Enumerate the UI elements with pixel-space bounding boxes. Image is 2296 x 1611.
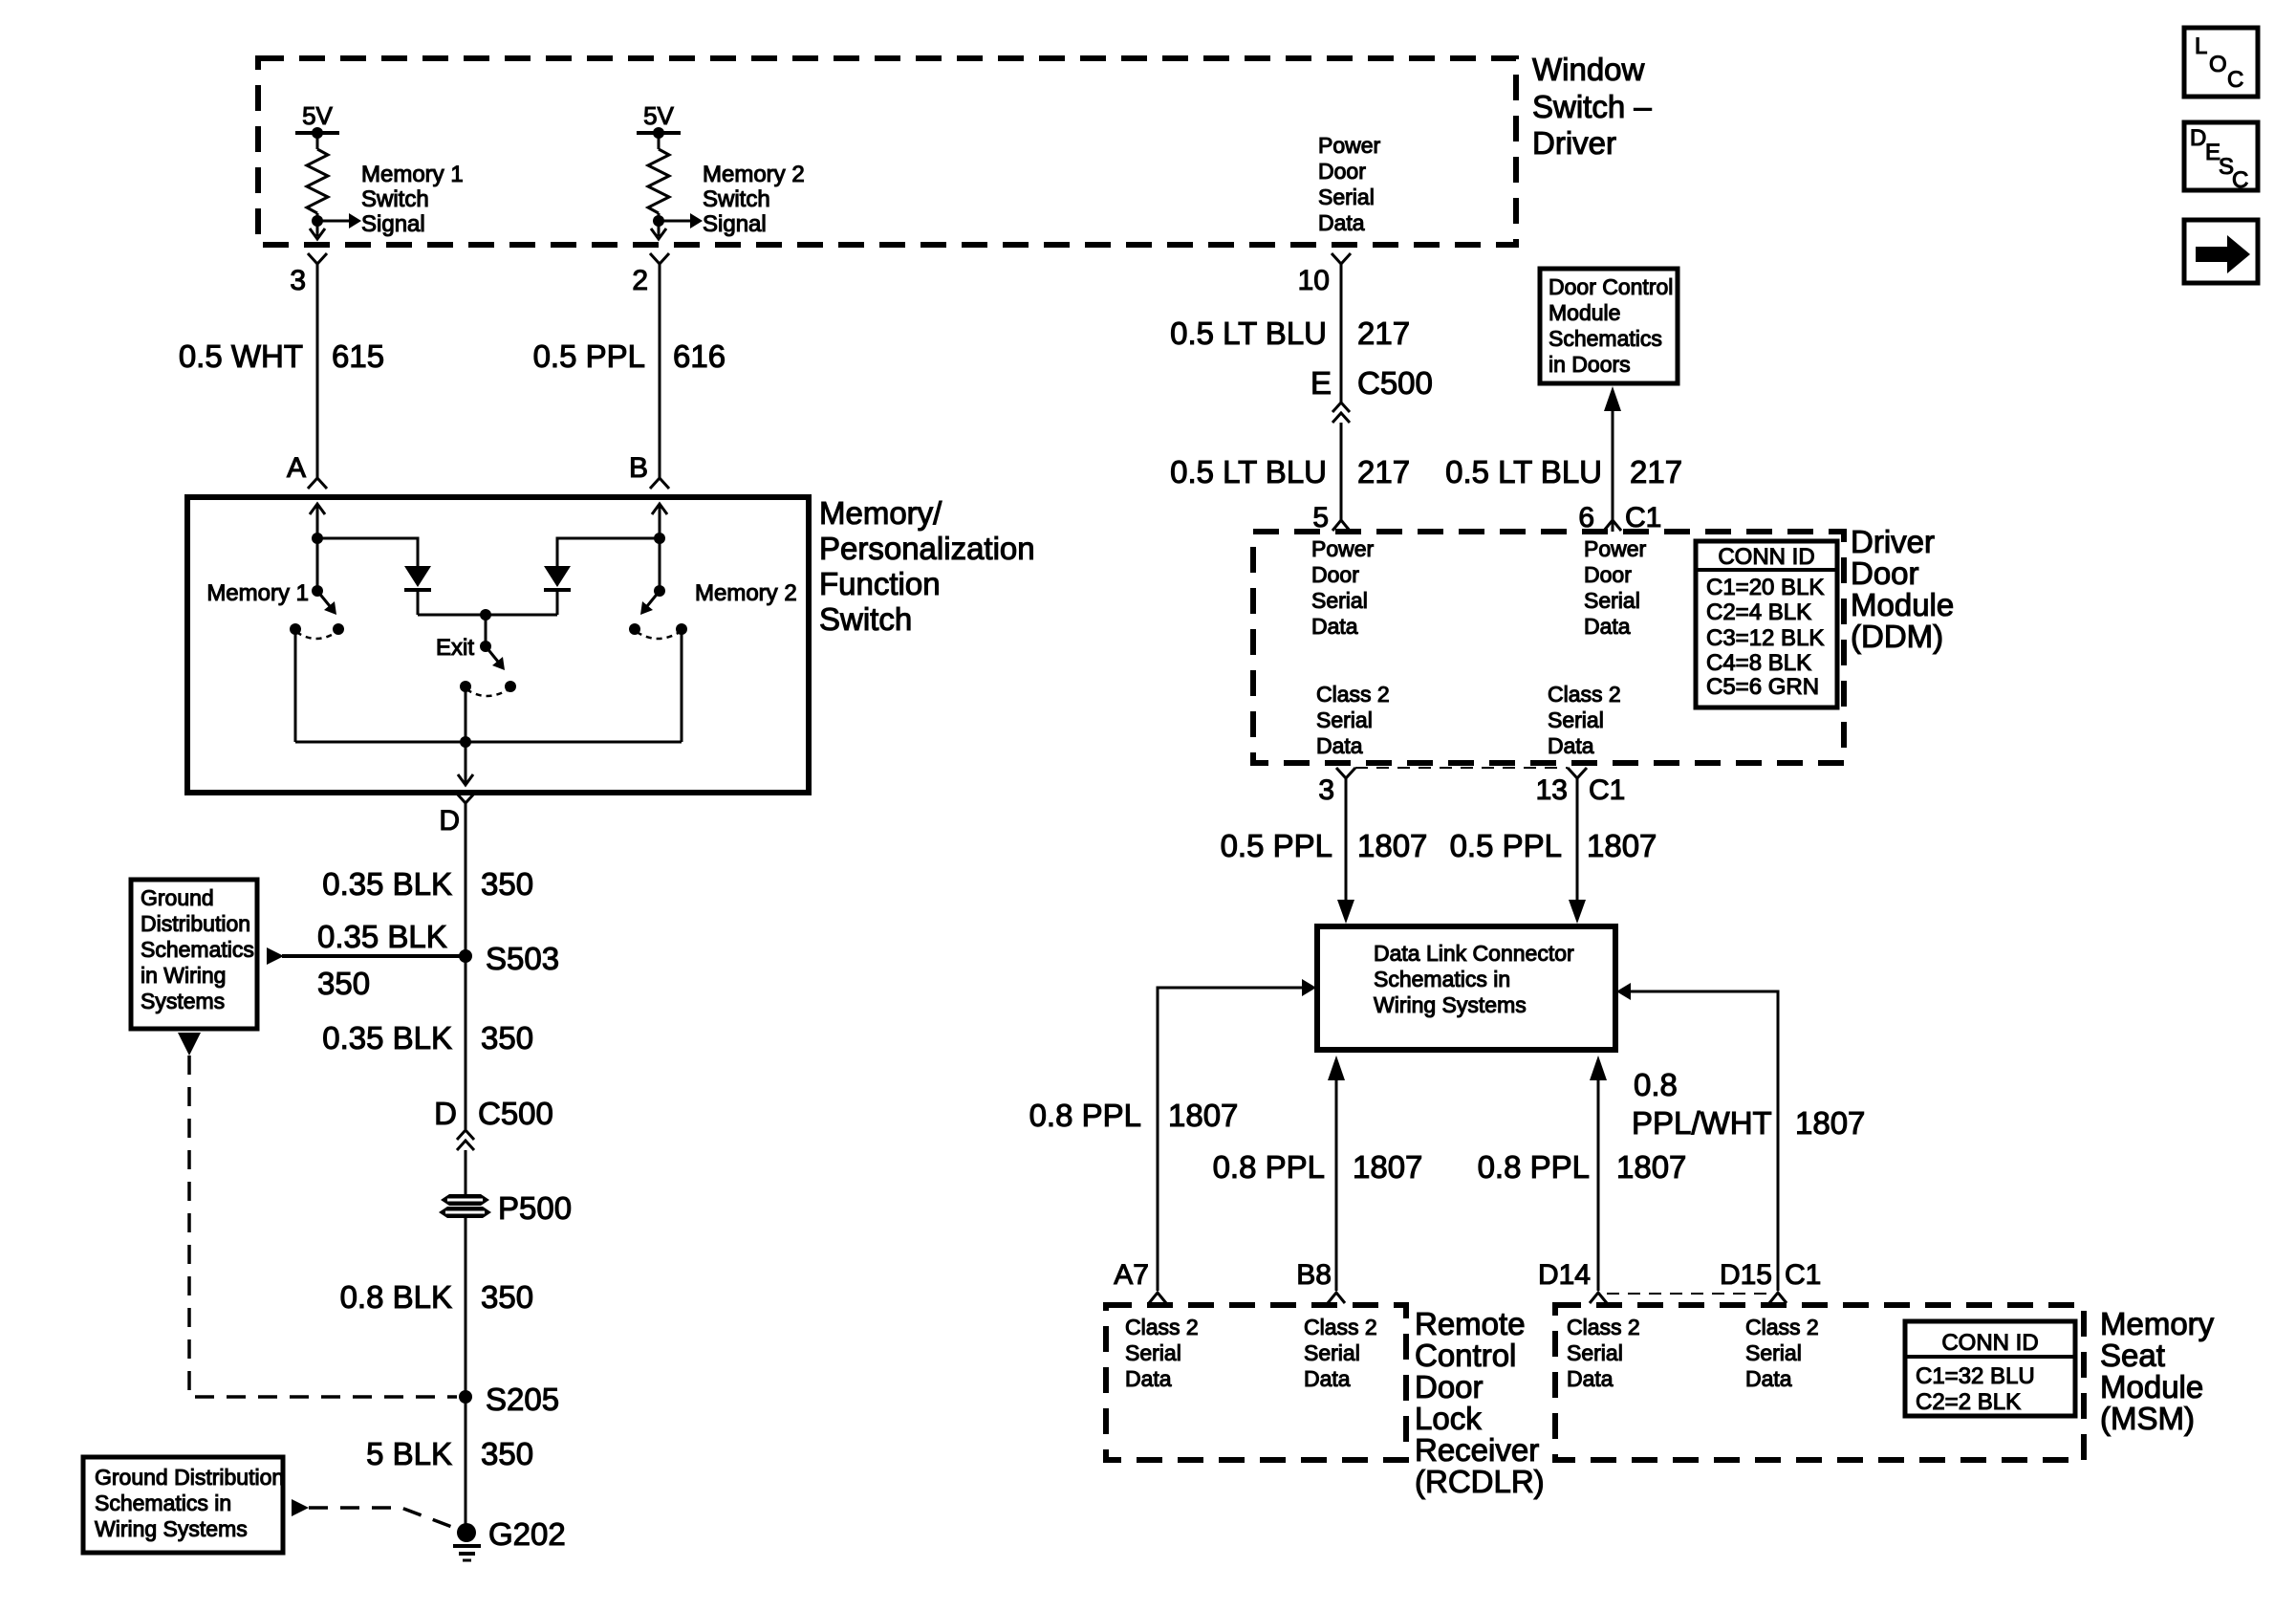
label: Power Door Serial Data (DDM right) xyxy=(1584,536,1647,639)
svg-text:0.8 PPL: 0.8 PPL xyxy=(1478,1149,1590,1185)
svg-text:C2=2 BLK: C2=2 BLK xyxy=(1916,1389,2021,1415)
wire B inside switch (arrow up) xyxy=(652,504,667,591)
svg-text:Power: Power xyxy=(1584,536,1647,561)
svg-text:Door: Door xyxy=(1415,1369,1484,1404)
svg-text:Module: Module xyxy=(1549,300,1620,325)
svg-text:C2=4 BLK: C2=4 BLK xyxy=(1706,599,1811,625)
svg-text:Schematics: Schematics xyxy=(1549,326,1662,351)
icon box: right arrow xyxy=(2184,220,2258,283)
svg-text:Exit: Exit xyxy=(436,635,474,661)
svg-text:3: 3 xyxy=(1318,774,1334,806)
svg-text:D14: D14 xyxy=(1538,1259,1591,1291)
svg-text:0.5 LT BLU: 0.5 LT BLU xyxy=(1445,454,1602,490)
label: Class 2 Serial Data (DDM right) xyxy=(1548,682,1621,758)
svg-text:A: A xyxy=(287,452,306,484)
svg-text:Door: Door xyxy=(1311,562,1359,587)
svg-text:Class 2: Class 2 xyxy=(1304,1315,1377,1339)
ground G202 xyxy=(453,1523,481,1560)
label: pin E / connector C500 xyxy=(1310,365,1433,401)
svg-text:Class 2: Class 2 xyxy=(1316,682,1390,707)
wire 1807 (0.8 PPL) D14 to DLC (arrow up) xyxy=(1590,1056,1607,1291)
label: Class 2 Serial Data (MSM right) xyxy=(1745,1315,1819,1391)
svg-text:Ground: Ground xyxy=(141,885,214,910)
svg-text:2: 2 xyxy=(632,265,648,296)
pin A connector chevron xyxy=(308,478,327,489)
label: 0.5 PPL 1807 (left) xyxy=(1221,828,1428,863)
label: 5 BLK 350 xyxy=(366,1436,533,1471)
label: Window Switch - Driver xyxy=(1532,52,1652,161)
label: Power Door Serial Data (window switch) xyxy=(1318,133,1381,235)
svg-text:O: O xyxy=(2209,52,2227,77)
wire: branch A to diode D1 xyxy=(317,538,418,566)
svg-text:B: B xyxy=(629,452,648,484)
svg-text:0.8 PPL: 0.8 PPL xyxy=(1029,1098,1141,1133)
svg-text:Memory 1: Memory 1 xyxy=(206,580,309,606)
switch: Memory 2 xyxy=(629,585,687,639)
label: pin A xyxy=(287,452,306,484)
label: pin B xyxy=(629,452,648,484)
wire 1807 (0.8 PPL) B8 to DLC (arrow up) xyxy=(1328,1056,1345,1291)
svg-text:Door: Door xyxy=(1318,159,1366,184)
svg-text:Memory 1: Memory 1 xyxy=(361,162,464,187)
svg-text:C500: C500 xyxy=(1357,365,1433,401)
svg-text:5V: 5V xyxy=(643,101,674,130)
label: Memory 1 Switch Signal xyxy=(361,162,464,237)
wire 350 (0.35 BLK) segment D to S503 xyxy=(465,803,467,1129)
svg-text:Switch: Switch xyxy=(361,186,429,212)
reference box: Door Control Module Schematics in Doors xyxy=(1540,269,1678,383)
svg-text:C1: C1 xyxy=(1785,1259,1821,1291)
svg-text:Module: Module xyxy=(2100,1369,2203,1404)
node S205 xyxy=(459,1390,472,1404)
connector C500 (double chevron) xyxy=(457,1130,474,1150)
svg-text:P500: P500 xyxy=(498,1190,572,1226)
module box: Window Switch - Driver (dashed) xyxy=(258,58,1516,245)
svg-text:Class 2: Class 2 xyxy=(1567,1315,1640,1339)
svg-text:13: 13 xyxy=(1536,774,1568,806)
wire A inside switch (arrow up) xyxy=(310,504,325,591)
svg-text:Signal: Signal xyxy=(361,211,425,237)
svg-text:C1: C1 xyxy=(1589,774,1625,806)
label: Ground Distribution Schematics in Wiring Systems (upper) xyxy=(141,885,254,1013)
svg-text:Schematics in: Schematics in xyxy=(1374,967,1510,991)
svg-text:C5=6 GRN: C5=6 GRN xyxy=(1706,674,1819,700)
svg-text:616: 616 xyxy=(673,338,726,374)
node: junction on wire A xyxy=(312,533,323,544)
svg-text:Serial: Serial xyxy=(1304,1340,1360,1365)
svg-text:0.5 PPL: 0.5 PPL xyxy=(1450,828,1562,863)
svg-text:Data: Data xyxy=(1125,1366,1172,1391)
svg-text:0.5 WHT: 0.5 WHT xyxy=(179,338,303,374)
connector C500 (double chevron, right) xyxy=(1332,403,1350,423)
pin B8 connector chevron xyxy=(1328,1293,1345,1303)
wire: Memory 2 contact down xyxy=(681,629,683,742)
svg-text:Serial: Serial xyxy=(1125,1340,1181,1365)
label: S503 xyxy=(486,941,559,976)
label: S205 xyxy=(486,1382,559,1417)
label: 0.5 LT BLU 217 (left column lower) xyxy=(1170,454,1410,490)
pin 6 connector chevron xyxy=(1604,520,1621,531)
node + signal arrow: Memory 1 Switch Signal xyxy=(310,213,361,239)
wire: connector C1 tie line (DDM pins 3-13) xyxy=(1355,767,1568,769)
svg-text:Receiver: Receiver xyxy=(1415,1432,1539,1468)
svg-text:C1=20 BLK: C1=20 BLK xyxy=(1706,575,1824,600)
svg-text:1807: 1807 xyxy=(1616,1149,1686,1185)
svg-text:Data: Data xyxy=(1567,1366,1614,1391)
svg-text:0.35 BLK: 0.35 BLK xyxy=(322,1020,452,1056)
wire: connector C1 tie line (MSM pins D14-D15) xyxy=(1607,1293,1769,1295)
5V supply tap (Memory 1) xyxy=(295,101,339,149)
table: CONN ID (MSM) xyxy=(1905,1321,2075,1416)
svg-text:Switch: Switch xyxy=(819,601,912,637)
svg-text:Memory 2: Memory 2 xyxy=(695,580,797,606)
pin D15 connector chevron xyxy=(1769,1293,1787,1303)
svg-text:350: 350 xyxy=(481,1279,533,1315)
wire: branch to ground distribution (triangle tail) xyxy=(267,947,466,965)
reference box: Ground Distribution Schematics in Wiring Systems (lower) xyxy=(83,1457,283,1553)
svg-text:Driver: Driver xyxy=(1532,125,1616,161)
label: 0.35 BLK 350 (branch, two lines) xyxy=(317,919,447,1001)
label: Memory 1 xyxy=(206,580,309,606)
svg-text:350: 350 xyxy=(317,966,370,1001)
label: Class 2 Serial Data (RCDLR right) xyxy=(1304,1315,1377,1391)
svg-text:0.8: 0.8 xyxy=(1634,1067,1678,1102)
node: diode bus junction xyxy=(480,609,491,646)
svg-text:Class 2: Class 2 xyxy=(1745,1315,1819,1339)
svg-text:350: 350 xyxy=(481,1020,533,1056)
svg-text:Data: Data xyxy=(1584,614,1631,639)
icon box: LOC xyxy=(2184,28,2258,97)
svg-text:0.5 PPL: 0.5 PPL xyxy=(1221,828,1332,863)
svg-text:Serial: Serial xyxy=(1316,708,1373,732)
wire 1807 (0.8 PPL/WHT) D15 to DLC (corner + arrow left) xyxy=(1616,983,1778,1291)
resistor (Memory 2 pull-up) xyxy=(648,149,669,236)
wire: diode bus xyxy=(418,614,557,617)
svg-text:C3=12 BLK: C3=12 BLK xyxy=(1706,625,1824,651)
wire: Memory 1 contact down xyxy=(294,629,297,742)
module box: Remote Control Door Lock Receiver RCDLR (dashed) xyxy=(1106,1305,1406,1460)
label: pin 3 xyxy=(290,265,306,296)
wire 350 (0.8 BLK) P500 to S205 xyxy=(465,1218,467,1533)
reference box: Data Link Connector Schematics in Wiring Systems xyxy=(1317,926,1615,1050)
svg-text:D15: D15 xyxy=(1720,1259,1772,1291)
node: junction on wire B xyxy=(654,533,665,544)
svg-text:Memory 2: Memory 2 xyxy=(703,162,805,187)
svg-text:Memory: Memory xyxy=(2100,1306,2215,1341)
svg-text:PPL/WHT: PPL/WHT xyxy=(1632,1105,1772,1141)
svg-text:5V: 5V xyxy=(302,101,333,130)
pin 3 connector chevron xyxy=(308,253,327,264)
label: pin 10 xyxy=(1298,265,1330,296)
svg-text:217: 217 xyxy=(1357,454,1410,490)
label: 0.8 BLK 350 xyxy=(340,1279,533,1315)
svg-text:Distribution: Distribution xyxy=(141,911,250,936)
svg-text:B8: B8 xyxy=(1296,1259,1332,1291)
label: 0.5 WHT 615 xyxy=(179,338,384,374)
pin 3 (DDM) connector chevron xyxy=(1336,768,1355,778)
label: 0.8 PPL/WHT 1807 xyxy=(1632,1067,1865,1141)
svg-text:1807: 1807 xyxy=(1587,828,1657,863)
svg-text:Personalization: Personalization xyxy=(819,531,1035,566)
svg-text:Door: Door xyxy=(1851,555,1919,591)
wire: branch B to diode D2 xyxy=(557,538,660,566)
svg-text:0.5 LT BLU: 0.5 LT BLU xyxy=(1170,454,1327,490)
svg-text:Seat: Seat xyxy=(2100,1338,2165,1373)
label: Exit xyxy=(436,635,474,661)
module box: Memory Seat Module MSM (dashed) xyxy=(1555,1305,2084,1460)
svg-text:L: L xyxy=(2195,33,2207,59)
svg-text:Class 2: Class 2 xyxy=(1548,682,1621,707)
wire 1807 (0.5 PPL) pin 3 to DLC (arrow down) xyxy=(1337,778,1354,924)
label: pin D xyxy=(439,805,460,837)
label: Ground Distribution Schematics in Wiring Systems (lower) xyxy=(95,1465,284,1541)
svg-text:C: C xyxy=(2232,167,2248,193)
wire 217 (0.5 LT BLU) pin10 to C500 xyxy=(1340,264,1343,403)
module box: Driver Door Module DDM (dashed) xyxy=(1253,532,1844,763)
svg-text:1807: 1807 xyxy=(1353,1149,1422,1185)
svg-text:1807: 1807 xyxy=(1795,1105,1865,1141)
svg-text:S503: S503 xyxy=(486,941,559,976)
svg-text:A7: A7 xyxy=(1114,1259,1149,1291)
svg-text:1807: 1807 xyxy=(1168,1098,1238,1133)
svg-text:Data: Data xyxy=(1745,1366,1792,1391)
svg-text:Data: Data xyxy=(1318,210,1365,235)
wire: output to pin D (arrow down) xyxy=(458,742,473,785)
label: P500 xyxy=(498,1190,572,1226)
wire: Exit contact down xyxy=(465,686,467,742)
svg-text:(MSM): (MSM) xyxy=(2100,1401,2195,1436)
resistor (Memory 1 pull-up) xyxy=(307,149,328,236)
svg-text:Data: Data xyxy=(1311,614,1358,639)
label: pin 6 / connector C1 xyxy=(1578,502,1661,533)
svg-text:Power: Power xyxy=(1318,133,1381,158)
wire: bottom bus xyxy=(295,741,682,744)
arrow: triangle below ground box xyxy=(178,1033,201,1056)
svg-text:Wiring Systems: Wiring Systems xyxy=(1374,992,1527,1017)
label: pin D / connector C500 xyxy=(434,1096,553,1131)
pin 2 connector chevron xyxy=(650,253,669,264)
wire: dashed reference line to S205 xyxy=(189,1056,457,1397)
svg-text:Class 2: Class 2 xyxy=(1125,1315,1199,1339)
node S503 xyxy=(459,949,472,963)
label: Remote Control Door Lock Receiver (RCDLR) xyxy=(1415,1306,1545,1499)
svg-text:Serial: Serial xyxy=(1318,185,1375,209)
svg-text:Memory/: Memory/ xyxy=(819,495,942,531)
label: 0.35 BLK 350 (upper) xyxy=(322,866,533,902)
svg-text:Serial: Serial xyxy=(1311,588,1368,613)
wire 1807 (0.8 PPL) A7 to DLC (corner + arrow right) xyxy=(1158,979,1316,1291)
label: Power Door Serial Data (DDM left) xyxy=(1311,536,1375,639)
svg-text:Wiring Systems: Wiring Systems xyxy=(95,1516,248,1541)
label: Memory Seat Module (MSM) xyxy=(2100,1306,2215,1436)
svg-text:10: 10 xyxy=(1298,265,1330,296)
label: 0.5 LT BLU 217 (upper) xyxy=(1170,316,1410,351)
svg-text:D: D xyxy=(434,1096,457,1131)
wire 1807 (0.5 PPL) pin 13 to DLC (arrow down) xyxy=(1569,778,1586,924)
svg-text:in Doors: in Doors xyxy=(1549,352,1631,377)
wire 616 (0.5 PPL) xyxy=(659,264,661,478)
label: Class 2 Serial Data (DDM left) xyxy=(1316,682,1390,758)
label: 0.35 BLK 350 (lower) xyxy=(322,1020,533,1056)
table: CONN ID (DDM) xyxy=(1696,541,1837,708)
label: pin 3 (DDM) xyxy=(1318,774,1334,806)
svg-text:C500: C500 xyxy=(478,1096,553,1131)
svg-text:D: D xyxy=(439,805,460,837)
svg-text:Door Control: Door Control xyxy=(1549,274,1673,299)
label: 0.8 PPL 1807 (D14) xyxy=(1478,1149,1687,1185)
label: Door Control Module Schematics in Doors xyxy=(1549,274,1673,377)
label: Data Link Connector Schematics in Wiring Systems xyxy=(1374,941,1574,1017)
svg-text:Switch –: Switch – xyxy=(1532,89,1652,124)
wire 615 (0.5 WHT) xyxy=(316,264,319,478)
5V supply tap (Memory 2) xyxy=(637,101,681,149)
splice pack P500 xyxy=(439,1194,491,1218)
label: 0.5 PPL 1807 (right) xyxy=(1450,828,1657,863)
svg-text:Schematics: Schematics xyxy=(141,937,254,962)
svg-text:C: C xyxy=(2227,67,2243,93)
switch: Memory 1 xyxy=(290,585,344,639)
wire 217 (0.5 LT BLU) pin 6 to Door Control box (arrow up) xyxy=(1604,386,1621,532)
svg-text:0.5 LT BLU: 0.5 LT BLU xyxy=(1170,316,1327,351)
label: pin 2 xyxy=(632,265,648,296)
switch: Exit xyxy=(460,641,516,696)
svg-text:Remote: Remote xyxy=(1415,1306,1526,1341)
svg-text:1807: 1807 xyxy=(1357,828,1427,863)
svg-text:Driver: Driver xyxy=(1851,524,1935,559)
svg-text:Window: Window xyxy=(1532,52,1645,87)
svg-text:Control: Control xyxy=(1415,1338,1516,1373)
label: 0.5 PPL 616 xyxy=(533,338,726,374)
pin D14 connector chevron xyxy=(1590,1293,1607,1303)
svg-text:Module: Module xyxy=(1851,587,1954,622)
arrow: triangle beside lower ground box xyxy=(292,1499,309,1516)
svg-text:Door: Door xyxy=(1584,562,1632,587)
svg-text:E: E xyxy=(1310,365,1332,401)
wire 217 (0.5 LT BLU) C500 to pin 5 xyxy=(1340,423,1343,521)
label: pin D14 xyxy=(1538,1259,1591,1291)
label: G202 xyxy=(488,1516,566,1552)
svg-text:CONN ID: CONN ID xyxy=(1941,1330,2038,1356)
svg-text:Ground Distribution: Ground Distribution xyxy=(95,1465,284,1490)
svg-text:Switch: Switch xyxy=(703,186,770,212)
label: Driver Door Module (DDM) xyxy=(1851,524,1954,654)
node + signal arrow: Memory 2 Switch Signal xyxy=(651,213,703,239)
label: 0.8 PPL 1807 (A7) xyxy=(1029,1098,1239,1133)
svg-text:C4=8 BLK: C4=8 BLK xyxy=(1706,650,1811,676)
svg-text:Serial: Serial xyxy=(1567,1340,1623,1365)
pin 10 connector chevron xyxy=(1332,253,1351,264)
svg-text:350: 350 xyxy=(481,1436,533,1471)
pin D connector chevron xyxy=(456,793,475,803)
svg-text:S205: S205 xyxy=(486,1382,559,1417)
svg-text:Signal: Signal xyxy=(703,211,767,237)
label: pin D15 / connector C1 xyxy=(1720,1259,1821,1291)
svg-text:CONN ID: CONN ID xyxy=(1718,544,1814,570)
svg-text:C1=32 BLU: C1=32 BLU xyxy=(1916,1363,2035,1389)
svg-text:Systems: Systems xyxy=(141,989,225,1013)
label: pin 5 xyxy=(1312,502,1329,533)
svg-text:Data: Data xyxy=(1304,1366,1351,1391)
label: pin A7 xyxy=(1114,1259,1149,1291)
svg-text:Data: Data xyxy=(1548,733,1594,758)
diode D1 xyxy=(404,566,431,615)
svg-text:Data Link Connector: Data Link Connector xyxy=(1374,941,1574,966)
pin 13 (DDM) connector chevron xyxy=(1568,768,1587,778)
svg-text:G202: G202 xyxy=(488,1516,566,1552)
label: 0.5 LT BLU 217 (right column) xyxy=(1445,454,1682,490)
diode D2 xyxy=(544,566,571,615)
svg-text:5 BLK: 5 BLK xyxy=(366,1436,452,1471)
svg-text:D: D xyxy=(2190,125,2206,151)
wire: C500 to P500 xyxy=(465,1150,467,1195)
svg-text:3: 3 xyxy=(290,265,306,296)
svg-text:Serial: Serial xyxy=(1584,588,1640,613)
pin A7 connector chevron xyxy=(1149,1293,1166,1303)
svg-text:615: 615 xyxy=(332,338,384,374)
label: Memory 2 xyxy=(695,580,797,606)
svg-text:Lock: Lock xyxy=(1415,1401,1482,1436)
label: pin 13 / connector C1 xyxy=(1536,774,1626,806)
svg-text:350: 350 xyxy=(481,866,533,902)
svg-text:in Wiring: in Wiring xyxy=(141,963,226,988)
svg-text:Power: Power xyxy=(1311,536,1375,561)
label: Memory/Personalization Function Switch xyxy=(819,495,1035,637)
svg-text:Function: Function xyxy=(819,566,941,601)
svg-text:0.35 BLK: 0.35 BLK xyxy=(322,866,452,902)
svg-text:Serial: Serial xyxy=(1745,1340,1802,1365)
svg-text:Serial: Serial xyxy=(1548,708,1604,732)
svg-text:217: 217 xyxy=(1357,316,1410,351)
svg-text:0.35 BLK: 0.35 BLK xyxy=(317,919,447,954)
label: Memory 2 Switch Signal xyxy=(703,162,805,237)
wire: dashed reference line to G202 xyxy=(309,1508,457,1529)
icon box: DESC xyxy=(2184,122,2258,193)
label: pin B8 xyxy=(1296,1259,1332,1291)
svg-text:217: 217 xyxy=(1630,454,1682,490)
reference box: Ground Distribution Schematics in Wiring Systems (upper) xyxy=(131,880,257,1029)
label: 0.8 PPL 1807 (B8) xyxy=(1213,1149,1423,1185)
label: Class 2 Serial Data (RCDLR left) xyxy=(1125,1315,1199,1391)
svg-text:(RCDLR): (RCDLR) xyxy=(1415,1464,1545,1499)
node: bottom bus junction xyxy=(460,736,471,748)
svg-text:(DDM): (DDM) xyxy=(1851,619,1943,654)
pin 5 connector chevron xyxy=(1332,520,1350,531)
pin B connector chevron xyxy=(650,478,669,489)
label: Class 2 Serial Data (MSM left) xyxy=(1567,1315,1640,1391)
svg-text:Data: Data xyxy=(1316,733,1363,758)
component box: Memory/Personalization Function Switch xyxy=(187,497,809,793)
svg-text:Schematics in: Schematics in xyxy=(95,1491,231,1515)
svg-text:0.8 BLK: 0.8 BLK xyxy=(340,1279,452,1315)
svg-text:0.8 PPL: 0.8 PPL xyxy=(1213,1149,1325,1185)
svg-text:0.5 PPL: 0.5 PPL xyxy=(533,338,645,374)
